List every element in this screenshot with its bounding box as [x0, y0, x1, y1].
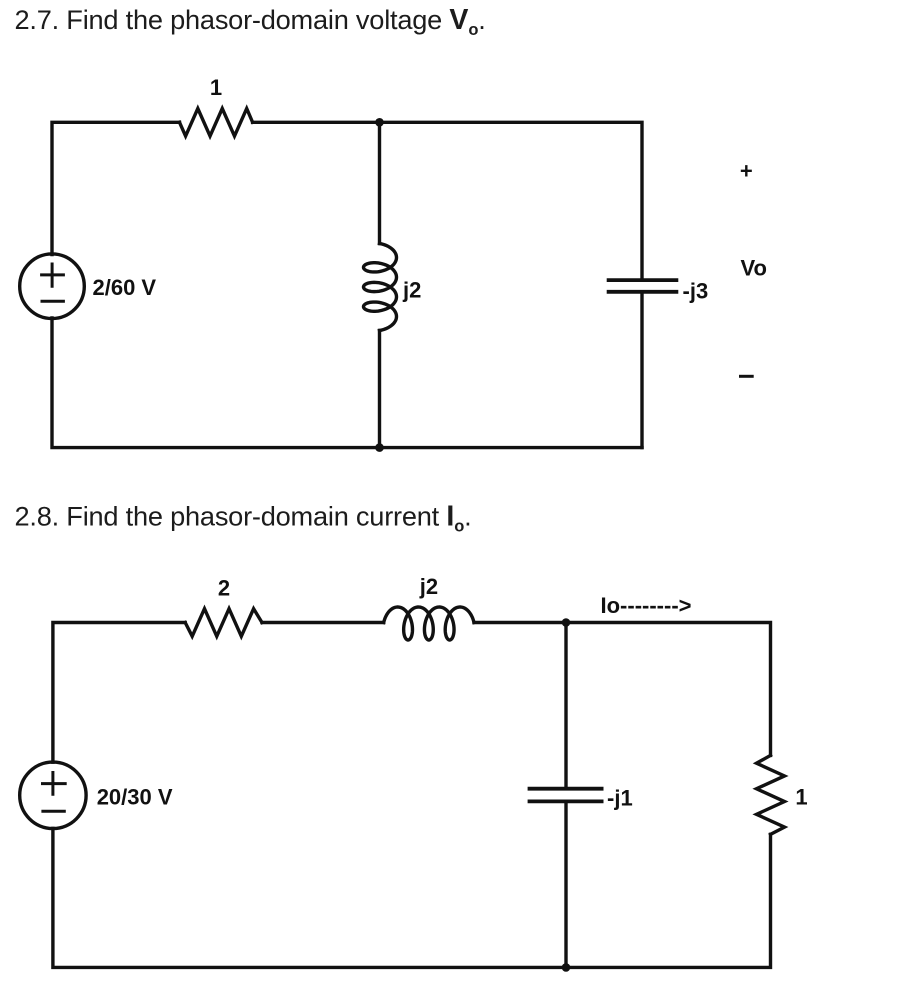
- inductor L2 value j2 (horizontal coil): [384, 607, 474, 640]
- svg-text:2.8. Find the phasor-domain cu: 2.8. Find the phasor-domain current Io.: [15, 501, 472, 536]
- svg-text:2.7. Find the phasor-domain vo: 2.7. Find the phasor-domain voltage Vo.: [15, 4, 486, 39]
- node D (bottom junction): [562, 963, 571, 972]
- capacitor C2 top plate: [530, 787, 602, 791]
- capacitor C2 bottom plate: [530, 800, 602, 804]
- wire: node A down to inductor L1: [378, 122, 381, 243]
- svg-text:Vo: Vo: [741, 256, 767, 281]
- wire: source V2 top to top-left corner to resistor R2: [53, 623, 185, 763]
- wire: C2 down to node D: [564, 801, 567, 967]
- wire: source V1 top to top-left corner to resistor R1: [52, 122, 180, 254]
- svg-text:-j1: -j1: [607, 786, 633, 811]
- voltage source V2 circle: [20, 762, 86, 828]
- voltage source V1 circle: [20, 254, 85, 319]
- svg-text:+: +: [740, 159, 753, 184]
- resistor R3 value 1 (vertical): [757, 755, 785, 834]
- wire: L1 to node B: [378, 331, 381, 448]
- wire: R2 to inductor L2: [262, 621, 384, 624]
- svg-text:2/60 V: 2/60 V: [93, 275, 157, 300]
- wire: node C down to capacitor C2: [564, 623, 567, 789]
- wire: L2 to node C to top-right corner down to resistor R3: [474, 623, 771, 756]
- V2 minus sign: [43, 810, 64, 813]
- wire: R3 to bottom-right corner along bottom to bottom-left corner up to V2: [53, 829, 771, 968]
- V1 plus sign: [42, 264, 64, 286]
- capacitor C1 top plate: [609, 278, 677, 282]
- svg-text:1: 1: [210, 75, 222, 100]
- wire: R1 to node A to top-right corner down to capacitor C1: [253, 122, 642, 280]
- resistor R2 value 2: [185, 609, 262, 637]
- node B (bottom junction): [375, 443, 384, 452]
- V2 plus sign: [43, 773, 66, 795]
- svg-text:1: 1: [795, 784, 807, 809]
- label minus polarity of Vo: [741, 375, 753, 378]
- svg-text:-j3: -j3: [683, 279, 709, 304]
- wire: C1 bottom plate down to bottom-right corner: [640, 292, 643, 448]
- svg-text:20/30 V: 20/30 V: [97, 784, 173, 809]
- capacitor C1 bottom plate: [609, 290, 677, 294]
- V1 minus sign: [42, 300, 63, 303]
- svg-text:j2: j2: [402, 278, 421, 303]
- wire: V1 bottom to bottom-left corner along bottom to bottom-right corner: [52, 318, 642, 448]
- resistor R1 value 1: [180, 109, 253, 137]
- node C (top junction): [562, 618, 571, 627]
- svg-text:2: 2: [218, 575, 230, 600]
- node A (top junction): [375, 118, 384, 127]
- svg-text:Io-------->: Io-------->: [601, 593, 692, 618]
- svg-text:j2: j2: [419, 574, 438, 599]
- inductor L1 value j2 (vertical coil): [364, 244, 397, 331]
